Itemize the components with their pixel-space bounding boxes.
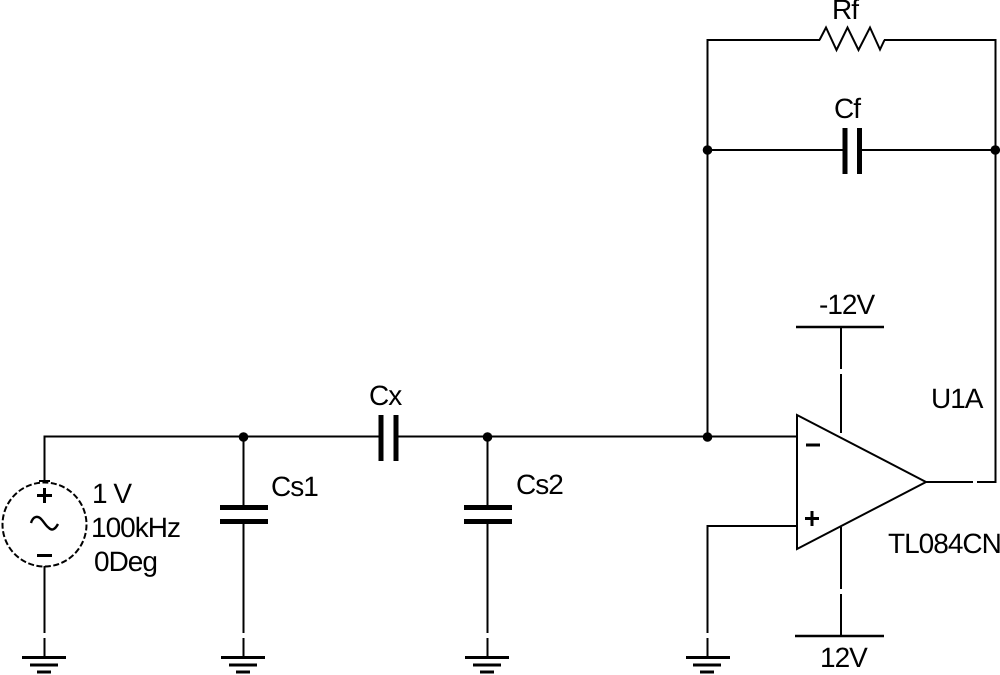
wire right vertical [995, 39, 997, 483]
node junction Cf left [703, 145, 713, 155]
wire Cs1 to ground [243, 524, 245, 656]
svg-text:TL084CN: TL084CN [888, 528, 1000, 559]
svg-text:Cf: Cf [834, 93, 861, 124]
wire source top pin [44, 437, 46, 482]
wire Cs2 to ground [487, 524, 489, 656]
wire source bottom pin to ground [44, 566, 46, 656]
power 12V [795, 527, 884, 636]
svg-text:12V: 12V [820, 642, 868, 673]
capacitor Cs1 [220, 505, 268, 524]
svg-text:Rf: Rf [832, 0, 859, 25]
ground (source) [22, 658, 66, 673]
capacitor Cf [843, 128, 863, 174]
ground (Cs1) [221, 658, 265, 673]
ground (opamp plus) [686, 658, 730, 673]
node junction feedback to rail [703, 432, 713, 442]
svg-text:0Deg: 0Deg [94, 546, 157, 577]
wire Cs1 branch [243, 437, 245, 506]
wire Cs2 branch [487, 437, 489, 507]
wire feedback left vertical [707, 40, 709, 437]
svg-text:Cs1: Cs1 [271, 471, 318, 502]
svg-text:U1A: U1A [931, 383, 984, 414]
node junction Cf right [991, 145, 1000, 155]
node junction at Cs1 [239, 432, 249, 442]
wire main rail left segment [44, 436, 379, 438]
wire main rail right segment [399, 436, 798, 438]
svg-text:1 V: 1 V [92, 478, 132, 509]
node junction at Cs2 [483, 432, 493, 442]
power -12V [796, 327, 884, 433]
wire top left segment [707, 39, 821, 41]
wire Cf left segment [708, 149, 843, 151]
svg-text:Cs2: Cs2 [516, 469, 563, 500]
svg-text:100kHz: 100kHz [91, 512, 180, 543]
op-amp U1A [797, 415, 926, 549]
wire Cf right segment [862, 149, 996, 151]
AC source V1 [3, 481, 87, 567]
wire opamp output [926, 481, 996, 483]
wire opamp plus input [708, 525, 798, 527]
wire top right segment [884, 39, 997, 41]
capacitor Cx [379, 415, 399, 461]
capacitor Cs2 [464, 505, 512, 524]
svg-text:-12V: -12V [819, 289, 875, 320]
svg-text:Cx: Cx [369, 380, 402, 411]
ground (Cs2) [465, 658, 509, 673]
wire plus input to ground [707, 525, 709, 656]
resistor Rf [820, 28, 885, 51]
